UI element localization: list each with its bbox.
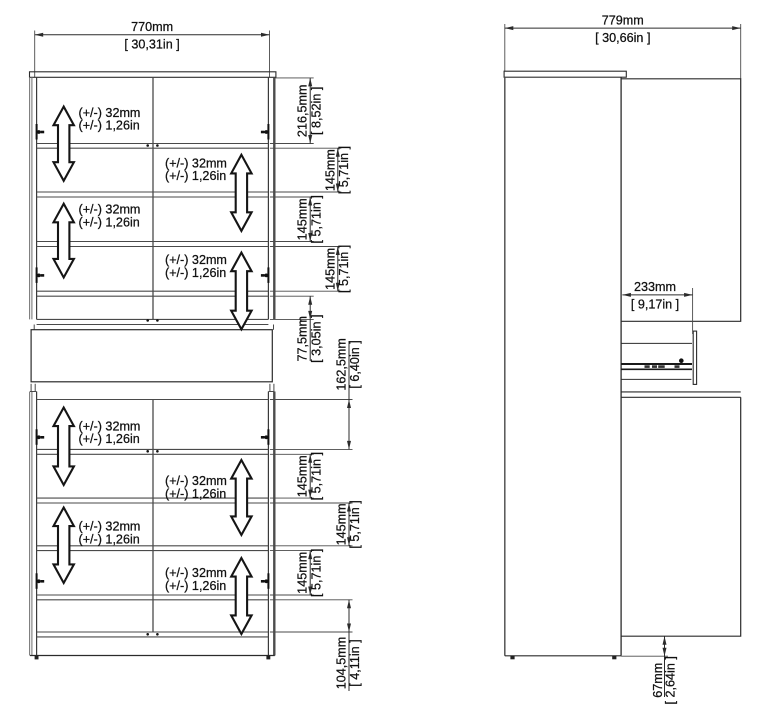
extension line 67 bottom [621,655,668,657]
adjust arrow R3 [231,460,251,535]
left jog below drawer [30,391,37,393]
right panel inner line upper [267,77,269,319]
adjust arrow R1 [231,155,251,231]
shelf pin left top section [36,267,38,283]
divider screw dots [146,450,149,453]
board line under drawer [37,399,269,401]
drawer box side line upper [621,342,692,344]
adjust arrow R4 [231,558,251,634]
svg-text:[ 9,17in ]: [ 9,17in ] [631,298,679,312]
svg-text:[ 3,05in ]: [ 3,05in ] [309,315,323,363]
shelf row T3 [37,241,269,243]
left carcass nub below drawer [30,384,32,392]
adjust arrow L3 [54,408,74,486]
svg-text:[ 5,71in ]: [ 5,71in ] [309,549,323,597]
divider screw dots [146,144,149,147]
fixed board above drawer [37,318,269,320]
svg-text:(+/-) 1,26in: (+/-) 1,26in [79,119,140,133]
right carcass nub below drawer [269,384,271,392]
svg-text:(+/-) 1,26in: (+/-) 1,26in [79,532,140,546]
svg-text:[ 30,31in ]: [ 30,31in ] [124,38,179,52]
extension line left [34,31,36,78]
shelf row T1 [37,143,269,145]
svg-text:[ 5,71in ]: [ 5,71in ] [348,500,362,548]
dimension line 770mm [35,34,270,36]
svg-text:(+/-) 1,26in: (+/-) 1,26in [165,169,226,183]
shelf pin right top section [267,124,269,140]
dimension line 779mm [505,27,741,29]
right jog above drawer [273,325,275,330]
left jog above drawer [33,325,35,330]
door open upper rect [621,79,741,321]
shelf pin right bottom section [267,573,269,589]
extension line left 779 [504,24,506,71]
shelf row T2 [37,191,269,193]
svg-text:[ 4,11in ]: [ 4,11in ] [348,639,362,686]
svg-text:[ 5,71in ]: [ 5,71in ] [309,452,323,500]
svg-text:77,5mm: 77,5mm [296,316,310,362]
bottom edge [30,655,275,657]
svg-text:(+/-) 1,26in: (+/-) 1,26in [165,487,226,501]
door open lower rect [621,391,741,393]
side panel front line [504,77,506,656]
side panel back line [620,77,622,656]
top board [30,72,276,78]
shelf row B3 [37,545,269,547]
shelf row B2 [37,497,269,499]
right carcass nub2 below drawer [273,384,275,392]
drawer slide rail [621,363,692,365]
svg-text:(+/-) 1,26in: (+/-) 1,26in [79,432,140,446]
shelf row B1 [37,448,269,450]
shelf pin left top section [36,124,38,140]
divider screw dots [146,319,149,322]
svg-text:770mm: 770mm [131,20,173,34]
dim 104,5mm [270,599,353,601]
svg-text:[ 8,52in ]: [ 8,52in ] [309,87,323,135]
shelf row B4 [37,594,269,596]
adjust arrow L2 [54,204,74,278]
svg-text:145mm: 145mm [335,503,349,545]
dim 145mm B2 [270,502,353,504]
left panel inner line lower [36,392,38,656]
right jog below drawer [268,391,274,393]
shelf pin right top section [267,267,269,283]
dim 145mm B1 [270,453,314,455]
svg-text:779mm: 779mm [602,13,644,27]
dim 162,5mm [270,399,353,401]
svg-text:[ 6,40in ]: [ 6,40in ] [348,340,362,388]
center divider upper [152,77,154,319]
dim 145mm B3 [270,550,314,552]
foot left [35,656,39,660]
svg-text:[ 5,71in ]: [ 5,71in ] [337,146,351,194]
dim 216,5mm [276,77,314,79]
svg-text:[ 30,66in ]: [ 30,66in ] [595,31,650,45]
dim 77,5mm [270,295,314,297]
dim 145mm T1 [270,147,341,149]
svg-text:104,5mm: 104,5mm [335,637,349,690]
left panel outer line lower [29,392,31,656]
dim 145mm T2 [270,196,314,198]
divider screw dots [146,633,149,636]
adjust arrow R2 [231,253,251,330]
shelf pin left bottom section [36,573,38,589]
svg-text:145mm: 145mm [296,552,310,594]
adjust arrow L1 [54,107,74,181]
svg-text:(+/-) 1,26in: (+/-) 1,26in [165,579,226,593]
shelf row T4 [37,290,269,292]
side foot back [612,656,616,660]
svg-text:[ 2,64in ]: [ 2,64in ] [664,656,678,704]
left carcass nub2 below drawer [34,384,36,392]
side top board [504,71,626,77]
dimension line 233mm [622,294,692,296]
svg-text:233mm: 233mm [634,280,676,294]
adjust arrow L4 [54,508,74,584]
foot right [266,656,270,660]
shelf pin left bottom section [36,429,38,445]
left panel face line upper [31,77,33,319]
right panel outer line upper [273,77,275,319]
left panel face line lower [31,392,33,656]
extension line 233 right [692,288,694,334]
slide end plate [693,331,696,384]
svg-text:[ 5,71in ]: [ 5,71in ] [337,245,351,293]
left panel inner line upper [36,77,38,319]
right panel outer line lower [273,392,275,656]
svg-text:162,5mm: 162,5mm [335,338,349,391]
extension line right 779 [740,24,742,79]
svg-text:216,5mm: 216,5mm [296,85,310,138]
svg-text:[ 5,71in ]: [ 5,71in ] [309,195,323,243]
shelf pin right bottom section [267,429,269,445]
svg-text:145mm: 145mm [296,198,310,240]
svg-text:145mm: 145mm [296,455,310,497]
svg-text:145mm: 145mm [323,149,337,191]
extension line right [269,31,271,78]
center divider lower [152,400,154,633]
drawer front [31,330,272,382]
side foot front [510,656,514,660]
drawer box side line lower [621,378,691,380]
left panel outer line upper [29,77,31,319]
side bottom line [505,655,621,657]
svg-text:(+/-) 1,26in: (+/-) 1,26in [79,215,140,229]
slide roller dot [679,358,684,363]
svg-text:145mm: 145mm [323,248,337,290]
dim 145mm T3 [270,246,341,248]
bottom board [37,631,269,633]
right panel inner line lower [267,392,269,656]
svg-text:(+/-) 1,26in: (+/-) 1,26in [165,266,226,280]
